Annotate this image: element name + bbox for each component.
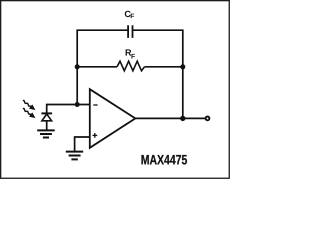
wire R_F branch right [145,66,183,68]
wire inverting input [47,105,90,114]
node output junction [180,116,185,121]
wire feedback left: inverting node up to CF left plate [77,30,127,104]
node inverting junction [75,102,80,107]
ground (op-amp non-inverting) [66,152,83,160]
wire non-inverting input [75,137,90,151]
node R_F right junction [180,64,185,69]
op-amp U1 MAX4475 [90,89,136,148]
wire R_F branch left [77,66,117,68]
output terminal [206,117,210,121]
photodiode [41,113,52,130]
wire feedback right: CF right plate down to output node [133,30,183,118]
capacitor CF [128,25,132,38]
ground (photodiode) [37,130,55,137]
value label CF [125,11,134,19]
light arrow 2 [21,106,37,120]
resistor RF [117,61,145,71]
node R_F left junction [75,64,80,69]
label MAX4475 [141,155,187,165]
light arrow 1 [21,98,37,112]
wire output [135,117,205,119]
value label RF [126,49,135,58]
